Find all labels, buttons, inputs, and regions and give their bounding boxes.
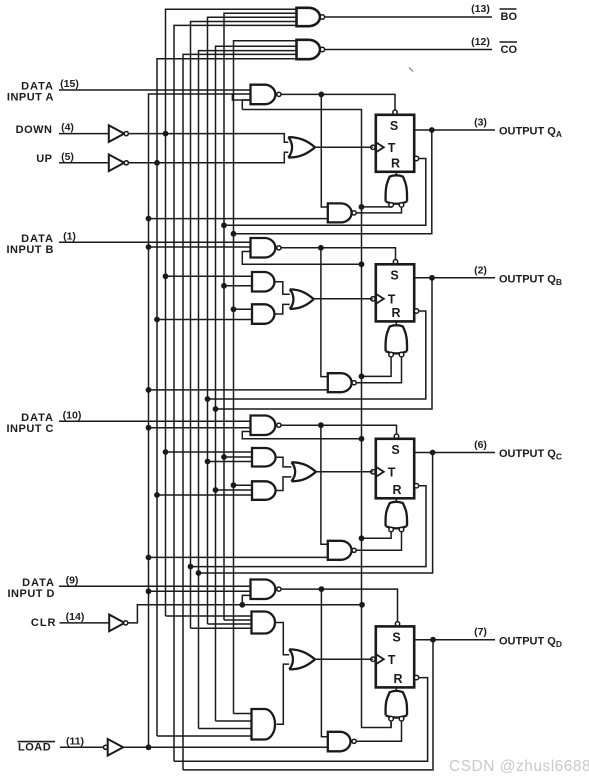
wire: QA bus corner to AND D3 input 1 — [234, 713, 252, 715]
node: bus tap — [154, 492, 160, 498]
AND gate C3 (count up steering C) — [252, 481, 276, 500]
wire: NOR output to R input of flip-flop D — [395, 687, 397, 690]
flip-flop B T input bubble and edge triangle — [371, 297, 375, 301]
wire: NAND B2 lower input from load bus — [149, 389, 328, 391]
node: UP joins up-enable bus — [154, 160, 160, 166]
svg-text:(12): (12) — [471, 36, 490, 48]
wire: inverted-QC bus to BO input 4 — [191, 22, 297, 629]
wire: Q-bar D return to bus — [174, 678, 428, 762]
svg-text:(6): (6) — [474, 439, 487, 451]
wire: NAND B1 output to S input of flip-flop B — [281, 248, 396, 260]
node: QA output junction — [429, 127, 435, 133]
svg-text:R: R — [391, 306, 400, 320]
wire: flip-flop C Q output line — [414, 452, 495, 454]
wire: flip-flop A Q output line — [414, 129, 495, 131]
wire: inverted-QA bus corner to AND D2 input 2 — [224, 619, 252, 621]
flip-flop C box — [376, 439, 414, 499]
wire: inverted-QB bus to BO input 3 — [208, 17, 297, 624]
svg-text:DOWN: DOWN — [16, 124, 53, 136]
wire: NAND C1 third input jog from clear bus — [242, 432, 361, 439]
node: bus tap — [221, 454, 227, 460]
NAND gate C1 (data/load) — [251, 416, 276, 436]
AND gate B2 (count down steering B) — [252, 272, 274, 292]
node: clear bus tap for NOR A — [359, 204, 365, 210]
svg-text:T: T — [388, 141, 396, 155]
node: QA joins bus — [231, 231, 237, 237]
flip-flop C Q-bar output bubble — [414, 484, 418, 488]
NOR gate R-driver for flip-flop A — [386, 175, 408, 203]
wire: QB return to bus — [216, 278, 433, 409]
svg-text:(15): (15) — [60, 78, 79, 90]
node: clear line joins stage D jog — [239, 602, 245, 608]
OR gate A (count steering for stage A) — [288, 137, 315, 158]
inverter: CLR buffer — [109, 615, 124, 632]
flip-flop A box — [376, 115, 414, 172]
node: LOAD joins distribution bus — [146, 744, 152, 750]
wire: QD bus to CO input 4 — [183, 54, 297, 770]
node: stage B jog joins clear bus — [359, 261, 365, 267]
wire: inverted-QC bus corner to AND D2 input 4 — [191, 627, 252, 629]
NAND gate A2 (reset driver) — [328, 203, 352, 222]
flip-flop B box — [376, 264, 414, 321]
node: NAND D1 output junction — [319, 586, 325, 592]
OR gate B (count steering) — [290, 289, 314, 309]
node: bus tap — [231, 306, 237, 312]
svg-text:R: R — [393, 672, 402, 686]
NOR gate R-driver for flip-flop C — [386, 502, 408, 529]
wire: QC bus to CO input 3 — [199, 51, 297, 729]
flip-flop A T input bubble and edge triangle — [371, 145, 375, 149]
wire: QA bus to AND B3 input 1 — [234, 308, 253, 310]
NAND gate D1 (data/load) — [251, 580, 276, 600]
NOR gate R-driver for flip-flop B — [386, 325, 408, 353]
wire: NAND D1 third input jog from clear bus — [242, 595, 361, 604]
wire: UP-enable bus to CO input 5 — [157, 59, 297, 736]
wire: CO output to label — [325, 49, 492, 51]
wire: DOWN-enable bus (vertical) with corner to BO input 1 — [166, 9, 297, 616]
AND gate B3 (count up steering B) — [252, 304, 274, 324]
svg-text:(14): (14) — [66, 611, 85, 623]
svg-text:R: R — [392, 483, 401, 497]
flip-flop D Q-bar output bubble — [414, 675, 418, 679]
wire: QC return to bus — [199, 453, 433, 574]
wire: up-enable bus corner to AND D3 input 4 — [157, 735, 252, 737]
wire: NAND C1 output to S input of flip-flop C — [281, 425, 397, 434]
node: Q-bar A joins bus — [221, 222, 227, 228]
stray scan mark — [409, 68, 413, 72]
node: bus tap — [163, 449, 169, 455]
wire: DOWN input to inverter — [59, 133, 109, 135]
NAND gate B1 (data/load) — [251, 238, 276, 258]
wire: NAND D2 output up to NOR D right input — [356, 721, 401, 742]
node: QC output junction — [430, 450, 436, 456]
wire: down-enable bus to AND C2 input 1 — [166, 451, 253, 453]
wire: DATA INPUT D line — [59, 585, 251, 587]
NAND gate A1 (data/load) — [251, 85, 276, 105]
wire: inverted-QA bus to AND C2 input 2 — [224, 456, 252, 458]
svg-text:DATA: DATA — [22, 577, 55, 589]
node: NAND B1 output junction — [318, 245, 324, 251]
svg-text:INPUT B: INPUT B — [7, 244, 55, 256]
wire: NAND C2 lower input from load bus — [149, 556, 328, 558]
svg-text:(1): (1) — [63, 230, 76, 242]
svg-text:CO: CO — [501, 44, 518, 56]
AND gate C2 (count down steering C) — [252, 448, 276, 467]
NAND gate C2 (reset driver) — [328, 541, 352, 560]
flip-flop A Q-bar output bubble — [414, 156, 418, 160]
wire: QB bus to AND C3 input 2 — [216, 489, 253, 491]
svg-text:INPUT A: INPUT A — [7, 92, 54, 104]
wire: NAND A2 lower input from load bus — [149, 218, 328, 220]
flip-flop A S input bubble — [393, 110, 397, 114]
wire: NAND A1 output to S input of flip-flop A — [281, 94, 395, 110]
wire: QA bus to CO input 1 — [234, 41, 297, 714]
svg-text:OUTPUT QD: OUTPUT QD — [499, 635, 562, 649]
wire: DATA INPUT B line — [59, 241, 251, 243]
svg-text:DATA: DATA — [21, 80, 54, 92]
wire: UP input to inverter — [59, 162, 109, 164]
node: bus tap — [163, 273, 169, 279]
wire: BO output to label — [325, 16, 492, 18]
svg-text:S: S — [392, 630, 400, 644]
svg-text:LOAD: LOAD — [18, 741, 51, 753]
node: clear line joins vertical clear bus — [359, 602, 365, 608]
wire: NAND B1 output down to NAND B2 input — [321, 248, 328, 377]
inverter: UP buffer — [109, 155, 124, 172]
wire: NAND A2 output up to NOR A right input — [356, 207, 401, 213]
node: QD output junction — [430, 637, 436, 643]
wire: AND B3 output jog into OR B — [275, 304, 290, 314]
wire: NAND C1 second input from load bus — [149, 427, 251, 429]
wire: inverted-QA bus to AND B2 input 2 — [224, 285, 252, 287]
wire: CLR input to inverter — [60, 622, 110, 624]
wire: QC bus corner to AND D3 input 3 — [199, 728, 252, 730]
svg-text:(11): (11) — [66, 735, 84, 747]
wire: NAND D1 second input from load bus — [149, 590, 251, 592]
wire: flip-flop B Q output line — [414, 277, 495, 279]
wire: NAND D1 output down to NAND D2 input — [321, 589, 327, 737]
OR gate D (count steering) — [289, 649, 315, 669]
wire: clear bus to NOR B left input — [362, 357, 392, 377]
node: bus tap — [213, 487, 219, 493]
svg-text:(7): (7) — [474, 626, 487, 638]
wire: AND C2 output jog into OR C — [275, 457, 291, 467]
wire: clear bus to NOR C left input — [362, 532, 392, 539]
node: load bus tap for NAND D1 — [146, 588, 152, 594]
wire: Q-bar A return to bus — [224, 159, 426, 226]
wire: OR A output to T input of flip-flop A — [315, 146, 373, 148]
wire: inverted-QB bus corner to AND D2 input 3 — [208, 623, 252, 625]
svg-text:OUTPUT QC: OUTPUT QC — [499, 448, 562, 462]
wire: Q-bar B return to bus — [208, 311, 426, 399]
NAND gate D2 (reset driver) — [328, 732, 351, 752]
wire: NAND B1 third input jog from clear bus — [242, 252, 361, 265]
svg-text:S: S — [391, 443, 399, 457]
node: bus tap — [221, 283, 227, 289]
flip-flop C T input bubble and edge triangle — [371, 470, 375, 474]
flip-flop D T input bubble and edge triangle — [371, 657, 375, 661]
svg-text:(9): (9) — [66, 574, 79, 586]
wire: DATA INPUT A line — [59, 89, 251, 91]
svg-text:CSDN @zhusl6688: CSDN @zhusl6688 — [449, 758, 589, 775]
node: QB output junction — [429, 275, 435, 281]
wire: NAND B1 second input from load bus — [149, 246, 251, 248]
node: clear bus tap for NOR B — [359, 374, 365, 380]
svg-text:(5): (5) — [61, 151, 74, 163]
svg-text:(3): (3) — [474, 117, 487, 129]
wire: load/clear distribution bus (leftmost vertical) — [149, 94, 251, 747]
wire: DATA INPUT C line — [59, 420, 251, 422]
node: bus tap — [231, 482, 237, 488]
node: load bus tap for NAND B1 — [146, 244, 152, 250]
flip-flop C S input bubble — [394, 434, 398, 438]
wire: AND B2 output jog into OR B — [275, 282, 290, 294]
wire: NOR output to R input of flip-flop C — [395, 498, 397, 501]
svg-text:T: T — [388, 465, 396, 479]
wire: AND D3 output jog into OR D — [277, 664, 290, 724]
svg-text:S: S — [390, 119, 398, 133]
wire: OR D output to T input of flip-flop D — [315, 658, 373, 660]
wire: NOR output to R input of flip-flop B — [395, 321, 397, 325]
svg-text:(4): (4) — [61, 122, 74, 134]
node: stage C jog joins clear bus — [359, 436, 365, 442]
svg-text:UP: UP — [36, 153, 52, 165]
wire: down-enable bus corner to AND D2 input 1 — [166, 615, 252, 617]
5-input NAND gate (carry) output CO — [297, 40, 321, 59]
wire: flip-flop D Q output line — [414, 639, 495, 641]
wire: branch of load line down to NAND A1 lower input — [232, 94, 250, 100]
NAND gate B2 (reset driver) — [328, 373, 352, 392]
wire: NAND C1 output down to NAND C2 input — [321, 425, 328, 544]
wire: AND D2 output jog into OR D — [276, 623, 290, 655]
wire: inverted-QD bus to BO input 5 — [174, 25, 297, 761]
node: clear bus tap for NOR C — [359, 535, 365, 541]
OR gate C (count steering) — [291, 462, 316, 481]
flip-flop D box — [376, 626, 414, 687]
node: NAND A1 output junction — [318, 92, 324, 98]
flip-flop B Q-bar output bubble — [414, 309, 418, 313]
node: bus tap — [205, 459, 211, 465]
wire: QB bus corner to AND D3 input 2 — [216, 720, 252, 722]
wire: NAND C2 output up to NOR C right input — [356, 532, 401, 551]
svg-text:DATA: DATA — [21, 412, 54, 424]
wire: inverted CLR up and across to clear bus — [128, 605, 362, 623]
wire: QA bus to AND C3 input 1 — [234, 484, 253, 486]
node: Q-bar B joins bus — [205, 396, 211, 402]
svg-text:OUTPUT QB: OUTPUT QB — [499, 274, 562, 288]
svg-text:OUTPUT QA: OUTPUT QA — [499, 126, 562, 140]
wire: down-enable bus to AND B2 input 1 — [166, 275, 253, 277]
node: QB joins bus — [213, 406, 219, 412]
wire: inverted DOWN to OR gate A and bus — [129, 134, 289, 143]
wire: QA return to bus — [234, 130, 432, 234]
node: load bus tap for NAND C2 — [146, 555, 152, 561]
flip-flop B S input bubble — [393, 260, 397, 264]
svg-text:INPUT D: INPUT D — [8, 588, 56, 600]
wire: QB bus to CO input 2 — [216, 46, 297, 721]
svg-text:T: T — [388, 653, 396, 667]
NOR gate R-driver for flip-flop D — [386, 691, 408, 718]
svg-text:BO: BO — [501, 11, 518, 23]
flip-flop D S input bubble — [395, 622, 399, 626]
svg-text:DATA: DATA — [21, 233, 54, 245]
wire: NOR output to R input of flip-flop A — [395, 172, 397, 175]
svg-text:S: S — [390, 268, 398, 282]
node: load bus tap for NAND C1 — [146, 425, 152, 431]
wire: AND C3 output jog into OR C — [275, 477, 291, 491]
node: load bus tap for NAND A2 — [146, 216, 152, 222]
wire: inverted UP to OR gate A and bus — [129, 152, 289, 163]
wire: NAND A1 output down to NAND A2 input — [321, 94, 328, 207]
wire: OR C output to T input of flip-flop C — [316, 471, 373, 473]
wire: OR B output to T input of flip-flop B — [314, 298, 373, 300]
wire: Q-bar C return to bus — [191, 486, 427, 567]
wire: inverted-QA bus to BO input 2 — [224, 13, 297, 620]
wire: NAND B2 output up to NOR B right input — [356, 357, 401, 383]
wire: clear bus to NOR A left input — [362, 206, 392, 208]
wire: clear bus vertical from stage A jog down to stage D NOR — [242, 110, 391, 728]
node: QC joins bus — [196, 570, 202, 576]
svg-text:(2): (2) — [474, 264, 487, 276]
node: bus tap — [154, 317, 160, 323]
svg-text:INPUT C: INPUT C — [7, 423, 55, 435]
wire: clear bus to NOR D left input — [390, 721, 392, 728]
svg-text:T: T — [388, 292, 396, 306]
5-input NAND gate (borrow) output BO — [297, 8, 320, 26]
wire: up-enable bus to AND B3 input 2 — [157, 319, 252, 321]
wire: QD return to bus — [183, 640, 433, 770]
svg-text:R: R — [391, 156, 400, 170]
wire: NAND A1 third input jog from clear bus — [242, 100, 250, 110]
svg-text:CLR: CLR — [31, 617, 57, 629]
wire: up-enable bus to AND C3 input 3 — [157, 494, 252, 496]
node: Q-bar C joins bus — [188, 564, 194, 570]
node: load bus tap for NAND B2 — [146, 387, 152, 393]
inverter: DOWN buffer — [109, 125, 124, 142]
svg-text:(10): (10) — [63, 409, 82, 421]
wire: LOAD line across to NAND D2 input — [123, 746, 328, 748]
node: DOWN joins down-enable bus — [163, 131, 169, 137]
wire: LOAD input to inverter — [60, 746, 104, 748]
AND gate D3 (count up steering D) — [252, 709, 276, 740]
node: NAND C1 output junction — [318, 422, 324, 428]
AND gate D2 (count down steering D) — [252, 612, 276, 634]
wire: inverted-QB bus to AND C2 input 3 — [208, 461, 253, 463]
inverter: LOAD buffer with input bubble — [104, 745, 108, 749]
wire: NAND D1 output to S input of flip-flop D — [281, 589, 398, 622]
svg-text:(13): (13) — [471, 3, 490, 15]
